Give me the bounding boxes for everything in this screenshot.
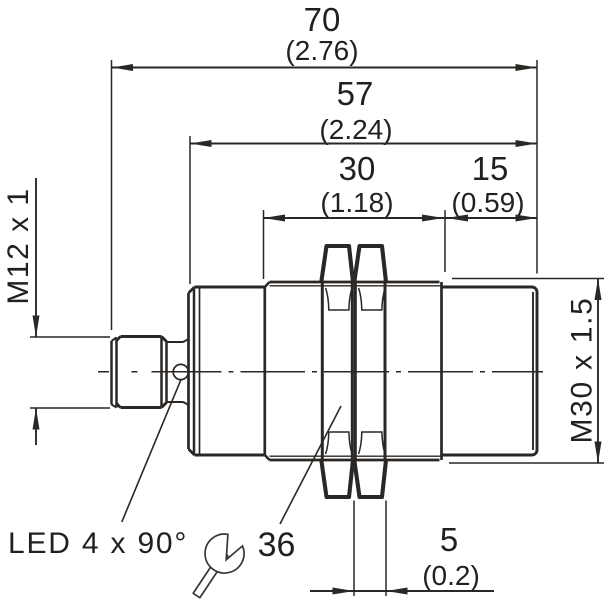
dimension text 5 — [422, 521, 480, 591]
svg-text:(2.76): (2.76) — [285, 35, 358, 66]
arrowhead 15 right — [516, 215, 538, 222]
body top edge — [195, 286, 265, 289]
nut 1 bottom trapezoid — [321, 460, 353, 497]
svg-text:(0.2): (0.2) — [422, 560, 480, 591]
thread crest bottom — [270, 459, 440, 462]
svg-text:5: 5 — [440, 521, 458, 558]
arrowhead 70 right — [516, 64, 538, 71]
extension line left of 70 — [111, 60, 113, 330]
connector barrel bottom — [117, 403, 167, 408]
arrowhead 30 left — [264, 215, 286, 222]
connector neck top — [167, 339, 189, 342]
arrowhead 30 right — [422, 215, 444, 222]
connector M12 face inner — [115, 338, 118, 408]
thread root top — [270, 285, 442, 287]
arrowhead 57 right — [516, 140, 538, 147]
thread-tail boundary vertical — [440, 282, 443, 460]
tail right edge / sensing face — [536, 292, 539, 450]
thread start chamfers — [265, 282, 270, 460]
extension line M12 bottom — [30, 407, 110, 409]
svg-text:30: 30 — [339, 150, 376, 187]
label 36 — [258, 526, 296, 564]
svg-text:M12 x 1: M12 x 1 — [2, 187, 35, 304]
svg-text:M30 x 1.5: M30 x 1.5 — [566, 296, 599, 443]
arrowhead 5 left — [333, 588, 355, 595]
nut 2 top trapezoid — [354, 246, 386, 282]
dimension line M30 — [597, 279, 599, 464]
label M30 x 1.5 — [566, 296, 599, 443]
arrowhead 70 left — [112, 64, 134, 71]
svg-text:57: 57 — [337, 75, 374, 112]
arrowhead 57 left — [190, 140, 212, 147]
tail bottom edge — [442, 450, 538, 455]
arrowhead 5 right — [386, 588, 408, 595]
extension line M30 top — [452, 278, 604, 280]
leader line 36 — [280, 406, 341, 524]
LED circle — [173, 364, 188, 379]
arrowhead 15 left — [447, 215, 469, 222]
centerline axis — [98, 371, 543, 373]
svg-text:70: 70 — [304, 1, 341, 38]
nut 2 bottom trapezoid — [354, 460, 386, 497]
svg-text:(0.59): (0.59) — [451, 187, 524, 218]
dimension text 57 — [319, 75, 392, 145]
wrench icon handle — [193, 551, 228, 597]
connector M12 face outer — [110, 341, 113, 405]
nut 2 facet top — [359, 288, 386, 310]
body flange outer edge — [187, 293, 190, 449]
dimension line M12 upper — [35, 178, 37, 337]
body flange inner line a — [193, 288, 196, 454]
extension line M12 top — [30, 336, 110, 338]
nut 1 facet top — [326, 288, 353, 310]
dimension text 70 — [285, 1, 358, 66]
dimension line 30 and 15 — [264, 217, 538, 219]
label M12 x 1 — [2, 187, 35, 304]
dimension line 57 — [190, 143, 537, 145]
nut 1 facet bottom — [326, 432, 353, 454]
tail top edge — [442, 287, 538, 292]
nut 2 facet bottom — [359, 432, 386, 454]
connector barrel top — [117, 337, 167, 342]
nut 2 right edge — [384, 282, 387, 460]
connector barrel end verticals — [162, 337, 167, 408]
arrowhead M30 down — [595, 442, 602, 464]
dimension text 15 — [451, 150, 524, 218]
arrowhead M12 up — [33, 408, 40, 430]
connector neck bottom — [167, 402, 189, 405]
body bottom edge — [195, 454, 265, 457]
arrowhead M12 down — [33, 316, 40, 338]
thread shoulder vertical — [263, 287, 266, 455]
dimension text 30 — [320, 150, 393, 218]
dimension line 70 — [112, 67, 538, 69]
body flange chamfers — [189, 287, 195, 455]
extension line 30-15 middle — [444, 210, 446, 272]
nut 1 top trapezoid — [321, 246, 353, 282]
wrench icon head — [205, 534, 244, 573]
extension line M30 bottom — [449, 462, 604, 464]
label LED 4 x 90deg — [8, 527, 188, 560]
extension line 5 right — [385, 501, 387, 597]
svg-text:(1.18): (1.18) — [320, 187, 393, 218]
extension line right of 70 — [536, 60, 538, 274]
arrowhead M30 up — [595, 279, 602, 301]
nut 1 left edge — [321, 282, 324, 460]
nut 2 left edge — [354, 282, 357, 460]
thread root bottom — [270, 455, 442, 457]
body flange inner line b — [199, 287, 201, 455]
thread crest top — [270, 281, 440, 284]
extension line left of 57 — [189, 136, 191, 284]
svg-text:(2.24): (2.24) — [319, 114, 392, 145]
nut 1 right edge — [351, 282, 354, 460]
dimension line 5 — [310, 590, 494, 592]
tail inner line — [532, 292, 534, 450]
svg-text:36: 36 — [258, 526, 296, 564]
dimension line M12 lower — [35, 408, 37, 445]
connector face chamfers — [112, 338, 117, 408]
leader line LED — [122, 380, 181, 522]
svg-text:LED 4 x 90°: LED 4 x 90° — [8, 527, 188, 560]
extension line 5 left — [353, 501, 355, 597]
svg-text:15: 15 — [472, 150, 509, 187]
extension line 30 left — [263, 210, 265, 279]
